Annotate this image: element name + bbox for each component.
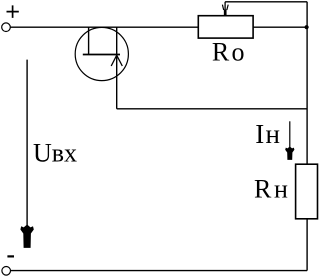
- current arrow In stem: [289, 121, 291, 147]
- plus label of input terminal: [7, 5, 19, 18]
- transistor VT1 base lead: [88, 27, 90, 54]
- wire from VT1 down-right to right rail: [117, 108, 307, 110]
- minus label of output terminal: [7, 255, 14, 257]
- potentiometer Ro body: [198, 16, 253, 38]
- svg-text:Iн: Iн: [255, 119, 280, 149]
- right rail wire bottom: [306, 219, 308, 271]
- voltage arrow Uvx head: [20, 225, 33, 248]
- transistor VT1 emitter arrow: [111, 55, 122, 66]
- wire top rail from X1 to Ro: [10, 26, 198, 28]
- transistor VT1 body circle: [75, 27, 128, 80]
- svg-text:Rо: Rо: [212, 38, 245, 67]
- transistor VT1 emitter-collector vertical lead: [116, 27, 118, 109]
- terminal X1 (+) input top-left: [2, 23, 11, 32]
- svg-text:Uвх: Uвх: [33, 138, 77, 167]
- voltage arrow Uvx stem: [26, 60, 28, 226]
- junction dot node A: [305, 25, 309, 29]
- svg-text:Rн: Rн: [254, 175, 288, 204]
- wire from Ro right end to right rail: [253, 26, 307, 28]
- wire from Ro wiper to right rail: [225, 1, 307, 3]
- transistor VT1 base bar: [83, 54, 120, 56]
- current arrow In head: [285, 147, 294, 160]
- wire bottom rail: [11, 270, 308, 272]
- terminal X2 (-) bottom-left: [2, 267, 11, 276]
- resistor Rn body: [296, 164, 318, 219]
- potentiometer Ro wiper arrow tip: [224, 10, 227, 16]
- potentiometer Ro wiper arrow barbs: [222, 5, 228, 10]
- right rail wire top: [306, 2, 308, 164]
- potentiometer Ro wiper arrow stem: [224, 2, 226, 15]
